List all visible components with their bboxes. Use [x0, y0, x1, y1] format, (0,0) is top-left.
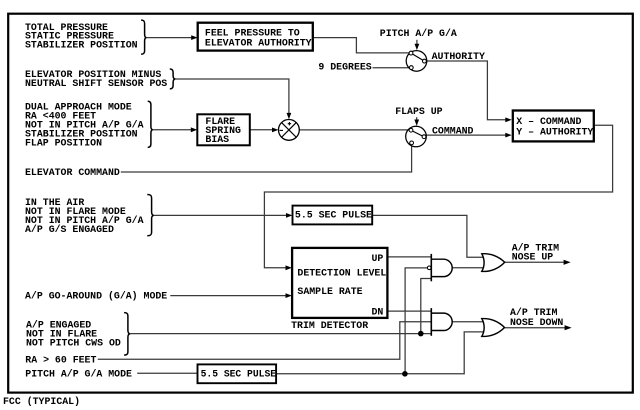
wire brace5 a/p engaged to AND gate A2 bottom input	[130, 333, 431, 335]
svg-text:NOSE DOWN: NOSE DOWN	[510, 317, 563, 328]
svg-text:Y – AUTHORITY: Y – AUTHORITY	[516, 127, 593, 138]
svg-text:PITCH A/P G/A MODE: PITCH A/P G/A MODE	[25, 368, 132, 379]
wire pitch a/p g/a control arrow line	[416, 40, 418, 46]
summing junction SJ1	[279, 119, 300, 140]
svg-text:NOT PITCH CWS OD: NOT PITCH CWS OD	[26, 338, 121, 349]
switch S2 flaps command	[406, 126, 427, 147]
wire UP output to AND gate A1	[388, 256, 432, 258]
svg-text:5.5 SEC PULSE: 5.5 SEC PULSE	[295, 210, 372, 221]
wire AND gate A2 output to OR gate O2	[452, 321, 483, 323]
svg-text:A/P G/S ENGAGED: A/P G/S ENGAGED	[25, 224, 114, 235]
svg-text:A/P GO-AROUND (G/A) MODE: A/P GO-AROUND (G/A) MODE	[25, 291, 167, 302]
brace total/static/stabilizer	[141, 20, 147, 54]
wire elevator command to switch S2 lower contact	[121, 145, 412, 172]
wire pulse2 feedback up to bubble input of AND A1	[405, 268, 428, 374]
arrowhead into 5.5 sec pulse box	[286, 213, 292, 218]
box U5 detection level sample rate	[292, 248, 387, 318]
arrowhead into feel pressure box	[191, 35, 197, 40]
arrowhead go-around into detection box	[286, 293, 292, 298]
wire OR gate O2 output a/p trim nose down	[505, 327, 567, 329]
box U6 5.5 sec pulse lower	[198, 364, 277, 383]
svg-text:FLAPS UP: FLAPS UP	[395, 106, 442, 117]
wire brace1 to feel-pressure box	[147, 37, 192, 39]
box U1 feel pressure to elevator authority	[198, 23, 313, 51]
arrowhead flaps up down	[414, 120, 419, 126]
wire flare box to summing junction	[250, 129, 273, 131]
arrowhead command into X box	[505, 133, 511, 138]
inverter bubble on A1 input	[427, 266, 431, 270]
switch S1 pitch authority	[406, 51, 427, 72]
arrowhead a/p trim nose down output	[565, 325, 572, 330]
arrowhead a/p trim nose up output	[564, 260, 571, 265]
box U3 x-command y-authority	[513, 111, 594, 142]
and gate A2	[431, 308, 452, 336]
svg-text:RA > 60 FEET: RA > 60 FEET	[25, 355, 96, 366]
wire junction to top AND gate A1 third input	[421, 279, 432, 334]
wire DN output to AND gate A2	[388, 310, 432, 312]
svg-text:TRIM DETECTOR: TRIM DETECTOR	[291, 320, 368, 331]
wire X-command box output feedback to detection box	[264, 125, 612, 267]
wire brace3 to flare spring bias box	[153, 129, 191, 131]
svg-text:ELEVATOR COMMAND: ELEVATOR COMMAND	[25, 167, 120, 178]
svg-text:SAMPLE RATE: SAMPLE RATE	[297, 286, 362, 297]
svg-text:9 DEGREES: 9 DEGREES	[318, 61, 371, 72]
wire flaps up control arrow line	[416, 117, 418, 121]
arrowhead into summing junction top	[287, 113, 292, 119]
wire switch S2 command output to X-command box	[426, 134, 506, 136]
arrowhead feedback into detection box	[286, 265, 292, 270]
svg-text:NOSE UP: NOSE UP	[512, 252, 554, 263]
wire OR gate O1 output a/p trim nose up	[505, 261, 565, 263]
svg-text:NEUTRAL SHIFT SENSOR POS: NEUTRAL SHIFT SENSOR POS	[25, 78, 167, 89]
brace dual approach group	[148, 101, 153, 147]
wire summing junction to switch S2	[300, 129, 411, 131]
svg-text:FCC (TYPICAL): FCC (TYPICAL)	[3, 396, 80, 407]
arrowhead pitch a/p g/a down	[415, 44, 420, 50]
brace in-the-air group	[147, 195, 154, 236]
svg-text:COMMAND: COMMAND	[432, 125, 474, 136]
wire 5.5 sec pulse output to OR gate O1	[372, 215, 484, 257]
svg-text:BIAS: BIAS	[205, 134, 229, 145]
and gate A1	[431, 254, 452, 281]
arrowhead into flare box	[191, 127, 197, 132]
svg-text:AUTHORITY: AUTHORITY	[432, 51, 485, 62]
svg-text:UP: UP	[372, 253, 384, 264]
wire brace4 to 5.5 sec pulse box	[154, 214, 287, 216]
box U2 flare spring bias	[197, 114, 250, 145]
or gate O2	[482, 319, 505, 337]
box U4 5.5 sec pulse upper	[293, 206, 373, 225]
svg-text:PITCH A/P G/A: PITCH A/P G/A	[380, 28, 457, 39]
wire AND gate A1 output to OR gate O1	[452, 267, 484, 269]
wire elevator position minus to summing junction	[175, 79, 289, 114]
svg-text:ELEVATOR AUTHORITY: ELEVATOR AUTHORITY	[205, 38, 312, 49]
svg-text:FLAP POSITION: FLAP POSITION	[25, 138, 102, 149]
wire pitch a/p g/a mode to pulse2 box	[137, 372, 197, 374]
wire feel-pressure output to switch S1 upper contact	[313, 38, 410, 53]
wire pulse2 output to OR gate O2 bottom input	[276, 332, 483, 374]
or gate O1	[482, 254, 505, 272]
wire RA 60 feet to AND gate A2 middle input	[98, 322, 432, 360]
brace elevator position minus	[170, 69, 176, 89]
wire go-around mode to detection box	[170, 295, 286, 297]
wire 9 degrees to switch S1 lower contact	[373, 67, 410, 69]
svg-text:5.5 SEC PULSE: 5.5 SEC PULSE	[201, 369, 277, 380]
svg-text:DETECTION LEVEL: DETECTION LEVEL	[297, 268, 386, 279]
svg-text:DN: DN	[372, 307, 384, 318]
junction dot J1	[418, 331, 424, 337]
svg-text:X – COMMAND: X – COMMAND	[516, 116, 581, 127]
brace a/p engaged group	[124, 313, 130, 356]
svg-text:STABILIZER POSITION: STABILIZER POSITION	[25, 40, 138, 51]
arrowhead into summing junction left	[272, 128, 278, 133]
wire switch S1 authority output to X-command box	[427, 61, 506, 120]
junction dot J2	[402, 371, 408, 377]
arrowhead authority into X box	[505, 117, 511, 122]
